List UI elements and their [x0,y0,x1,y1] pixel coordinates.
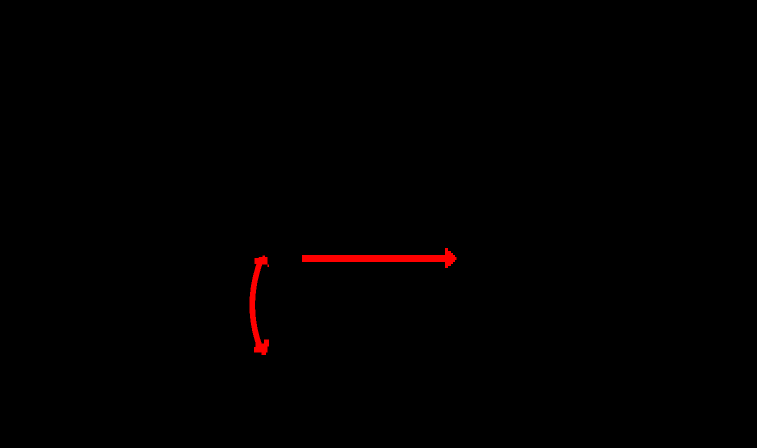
reaction arrow (horizontal red arrow) [302,248,457,268]
bottom arrowhead of curved arrow [254,340,269,355]
top arrowhead of curved arrow [254,256,269,268]
curved double-headed arrow (resonance arrow) [252,259,261,350]
